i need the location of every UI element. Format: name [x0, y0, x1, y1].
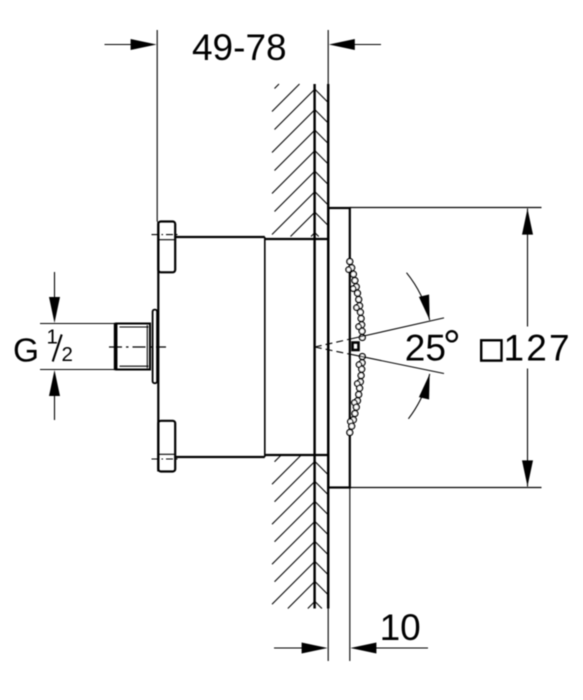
mounting tab upper inner edge — [158, 239, 175, 241]
svg-text:G: G — [13, 332, 39, 369]
svg-text:127: 127 — [504, 328, 572, 369]
dimension arrow left (10) — [274, 647, 303, 649]
wall face extension line (lower) — [327, 609, 329, 662]
dimension arrow up (G12) — [54, 394, 56, 420]
extension line pipe top — [40, 323, 116, 325]
body bottom edge — [175, 456, 265, 458]
body rear face — [157, 222, 159, 472]
extension line right (wall face, upper) — [327, 30, 329, 84]
svg-text:2: 2 — [62, 343, 73, 366]
wall hatch upper band — [272, 84, 327, 237]
pipe thread body — [116, 324, 150, 370]
mounting tab lower inner edge — [158, 453, 175, 455]
pipe end face (thick) — [114, 323, 118, 370]
spray angle upper line (hidden part) — [315, 339, 352, 347]
spray angle lower line — [352, 355, 444, 374]
svg-text:25: 25 — [405, 328, 446, 369]
sleeve top edge — [265, 238, 329, 240]
dimension arrow down (G12) — [54, 272, 56, 299]
spray face center nozzle — [353, 343, 359, 351]
spray angle upper arc arrow — [407, 273, 430, 320]
dimension arrow left (49-78) — [105, 44, 134, 46]
wall face line — [327, 84, 329, 609]
extension line plate top — [350, 207, 542, 209]
svg-text:1: 1 — [47, 326, 58, 349]
pipe thread inner top — [120, 326, 149, 328]
sleeve bottom edge — [265, 454, 329, 456]
escutcheon plate — [328, 208, 349, 488]
spray angle lower arc arrow — [408, 374, 429, 419]
spray angle lower line (hidden part) — [315, 347, 352, 355]
mounting tab upper — [158, 222, 175, 273]
dimension arrow right (49-78) — [352, 44, 381, 46]
extension line left (body rear face) — [156, 30, 158, 222]
svg-text:49-78: 49-78 — [192, 27, 287, 68]
wall tile-face line — [313, 84, 315, 609]
spray angle upper line — [352, 318, 444, 339]
dimension arrow right (10) — [375, 647, 428, 649]
pipe thread inner bottom — [120, 365, 149, 367]
mounting tab lower screw axis — [152, 458, 179, 460]
square symbol — [481, 340, 501, 360]
wall hatch lower band — [272, 456, 327, 609]
thread text fraction slash — [53, 335, 62, 362]
mounting tab upper screw axis — [152, 234, 178, 236]
plate front extension line (lower) — [349, 488, 351, 662]
mounting tab lower — [158, 421, 175, 472]
extension line plate bottom — [350, 487, 542, 489]
svg-text:10: 10 — [380, 607, 421, 648]
extension line pipe bottom — [40, 369, 116, 371]
spray face nozzle chain — [346, 259, 365, 436]
pipe thread inner right — [146, 325, 148, 368]
body top edge — [175, 236, 265, 238]
body front step — [264, 237, 266, 457]
product centerline — [109, 346, 166, 348]
dimension line 127 — [527, 209, 529, 327]
pipe flange — [153, 310, 158, 384]
